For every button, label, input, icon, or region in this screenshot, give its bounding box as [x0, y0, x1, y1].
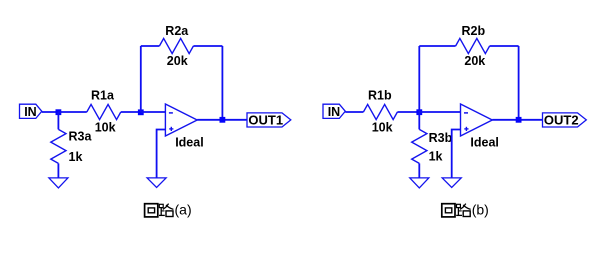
ground (below R3b) — [410, 178, 429, 188]
wire feedback left riser — [140, 46, 142, 112]
svg-text:IN: IN — [24, 105, 37, 119]
node C junction (output a) — [220, 117, 226, 123]
node B junction — [138, 109, 144, 115]
wire R2b to right riser b — [490, 45, 519, 47]
node D junction — [416, 109, 422, 115]
svg-text:OUT2: OUT2 — [544, 112, 579, 127]
ground (below op-amp a) — [147, 178, 166, 188]
wire IN to R1b — [345, 111, 363, 113]
caption 回路(b) — [442, 202, 489, 218]
wire top to R2b — [419, 45, 455, 47]
node E junction (output b) — [516, 117, 522, 123]
svg-text:10k: 10k — [372, 121, 393, 135]
wire feedback left riser b — [418, 46, 420, 112]
svg-text:R1a: R1a — [91, 89, 115, 103]
ground (below op-amp b) — [442, 178, 461, 188]
svg-text:1k: 1k — [69, 150, 83, 164]
svg-text:R2b: R2b — [462, 24, 486, 38]
wire top to R2a — [141, 45, 160, 47]
caption 回路(a) — [145, 202, 192, 218]
port IN (circuit a) — [20, 104, 42, 119]
wire feedback right riser b — [518, 46, 520, 120]
wire R1a to node B — [121, 111, 141, 113]
svg-text:R3a: R3a — [69, 130, 93, 144]
wire feedback right riser — [221, 46, 223, 120]
svg-text:R2a: R2a — [165, 24, 189, 38]
port IN (circuit b) — [323, 104, 345, 119]
wire op-amp output to OUT1 — [197, 119, 247, 121]
resistor R3b 1k — [412, 129, 453, 163]
wire node D down to R3b — [418, 112, 420, 129]
node A junction — [56, 109, 62, 115]
svg-text:(b): (b) — [472, 202, 489, 218]
svg-text:(a): (a) — [175, 202, 192, 218]
svg-text:IN: IN — [328, 105, 341, 119]
wire op-amp non-inverting input to ground — [157, 130, 166, 178]
svg-text:20k: 20k — [464, 54, 485, 68]
wire IN to node A — [42, 111, 59, 113]
svg-text:10k: 10k — [95, 121, 116, 135]
svg-text:Ideal: Ideal — [470, 136, 499, 150]
resistor R1b 10k — [363, 89, 397, 135]
op-amp U2 Ideal (circuit b) — [461, 104, 499, 150]
wire op-amp b output to OUT2 — [492, 119, 542, 121]
svg-text:Ideal: Ideal — [175, 136, 204, 150]
svg-text:R1b: R1b — [368, 89, 392, 103]
svg-text:R3b: R3b — [429, 131, 453, 145]
svg-text:OUT1: OUT1 — [248, 112, 283, 127]
resistor R3a 1k — [51, 129, 93, 164]
resistor R2b 20k — [456, 24, 490, 68]
wire op-amp b non-inverting input to ground — [452, 130, 461, 178]
wire R2a to right riser — [193, 45, 222, 47]
wire R3a to ground — [57, 163, 59, 178]
wire node A down to R3a — [57, 112, 59, 129]
port OUT2 — [543, 112, 587, 127]
wire R3b to ground — [418, 163, 420, 178]
svg-text:20k: 20k — [167, 54, 188, 68]
op-amp U1 Ideal (circuit a) — [165, 104, 203, 150]
resistor R1a 10k — [87, 89, 121, 135]
wire node B to op-amp inverting input — [141, 111, 166, 113]
wire node D to op-amp inverting input — [419, 111, 460, 113]
resistor R2a 20k — [159, 24, 193, 68]
ground (below R3a) — [49, 178, 68, 188]
wire node A to R1a — [58, 111, 86, 113]
svg-text:1k: 1k — [429, 150, 443, 164]
wire R1b to node D — [397, 111, 419, 113]
port OUT1 — [247, 112, 291, 127]
